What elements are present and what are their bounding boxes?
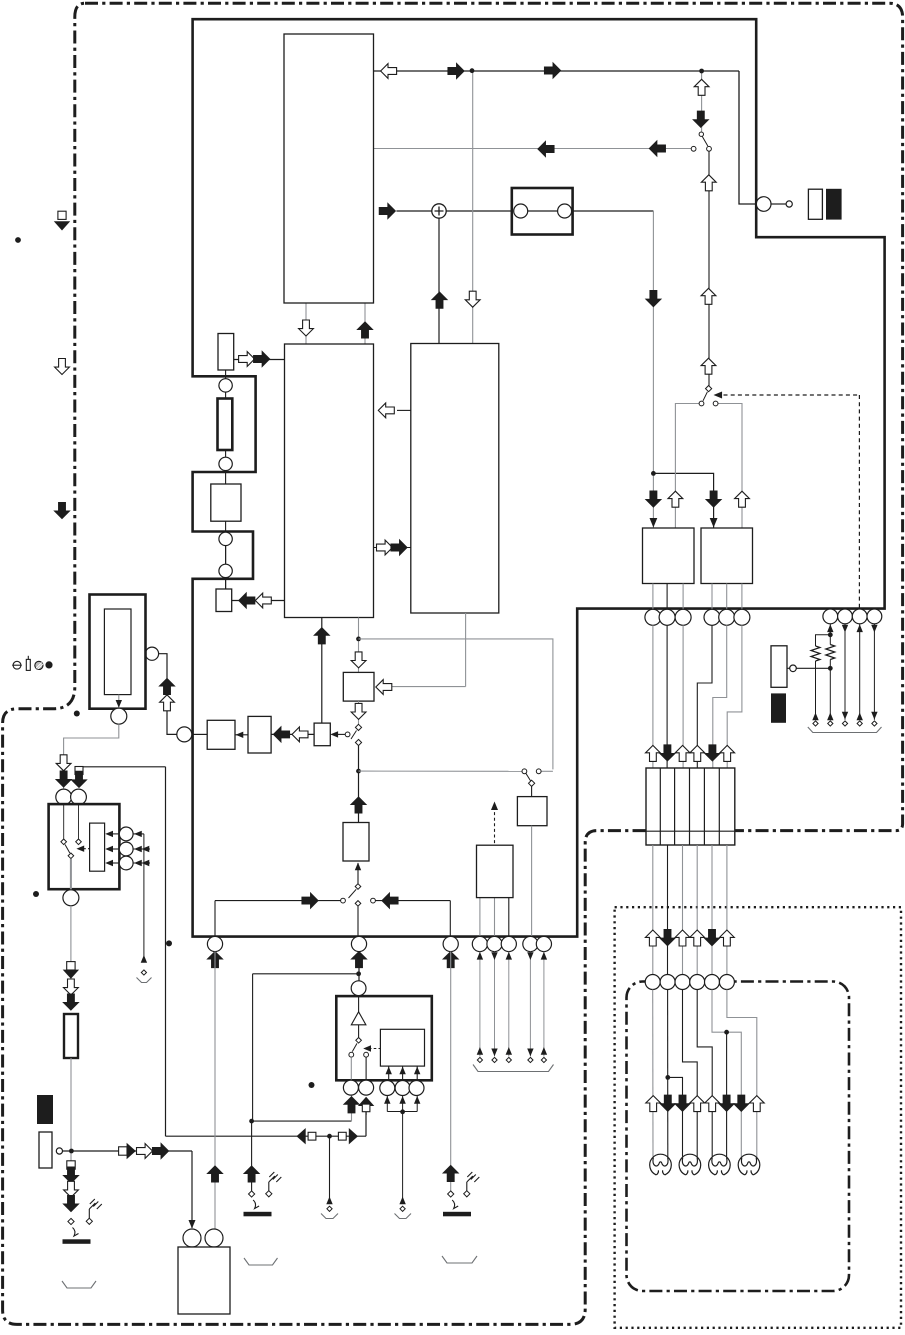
connector pin E3 xyxy=(852,609,867,624)
signal arrow open up xyxy=(701,288,716,304)
wire D2 to D1 xyxy=(235,734,248,736)
wire control block feed xyxy=(402,1067,404,1081)
jack J3 ground contact xyxy=(464,1191,470,1197)
wire sensor c to control block xyxy=(111,862,120,864)
jack J2 tip contact xyxy=(249,1191,255,1197)
arrowhead into control block xyxy=(386,1067,392,1075)
lamp L2 xyxy=(679,1154,701,1175)
marker square xyxy=(75,767,83,775)
marker square xyxy=(67,1161,75,1169)
signal arrow black up into junction net-C xyxy=(351,797,366,813)
block U5 (driver) xyxy=(701,528,753,584)
junction D5 branch xyxy=(724,1030,729,1035)
wire chain lower xyxy=(225,545,227,589)
contact stub xyxy=(327,1206,332,1211)
wire U3 to U2 xyxy=(397,409,411,411)
plug black L1 xyxy=(37,1095,53,1124)
block D2 xyxy=(248,716,271,753)
wire S2 throw-b to box U5 xyxy=(716,404,742,529)
arrowhead into M2 xyxy=(355,863,361,871)
connector pin P9 xyxy=(71,789,87,805)
index dot b xyxy=(74,711,80,717)
connector bank divider xyxy=(689,768,691,845)
connector pin D1 xyxy=(645,975,660,990)
wire G1 down xyxy=(531,826,533,937)
signal arrow black up into P15 xyxy=(352,952,367,968)
switch S5 lever xyxy=(65,845,70,854)
arrowhead E2 top xyxy=(842,625,848,633)
dashed control to S7 xyxy=(369,1048,381,1050)
block F1 xyxy=(477,845,514,897)
filament arrow black down 2 xyxy=(660,1095,675,1111)
jack J2 sleeve bar xyxy=(244,1212,272,1217)
block motor M3 xyxy=(178,1247,230,1314)
junction net-D xyxy=(327,1134,332,1139)
bracket J1 xyxy=(62,1281,96,1288)
connector pin E2 xyxy=(838,609,853,624)
wire E1 down upper xyxy=(829,624,831,645)
wire net-A2 horizontal xyxy=(374,148,692,150)
amplifier triangle xyxy=(351,1012,366,1025)
connector pin P24 xyxy=(395,1081,410,1096)
connector pin P5 xyxy=(177,727,192,742)
contact E2 xyxy=(842,721,847,726)
junction E1 a xyxy=(828,632,833,637)
connector pin P12 xyxy=(443,936,458,951)
arrowhead control S5 xyxy=(76,846,84,852)
wire net-J down to jack J2 xyxy=(251,1121,253,1191)
bracket stub xyxy=(321,1214,338,1219)
wire P7 to P8 xyxy=(64,724,119,789)
legend icon dot xyxy=(45,661,52,668)
switch S1 pivot xyxy=(699,132,703,136)
connector pin P16 xyxy=(472,936,487,951)
wire E1 to D2 xyxy=(271,733,314,735)
arrowhead control S7 xyxy=(363,1045,371,1051)
marker triangle right pin xyxy=(127,1143,136,1159)
connector pin P18 xyxy=(501,936,516,951)
connector pin E1 xyxy=(823,609,838,624)
dashed control line vertical xyxy=(858,395,860,608)
switch S6 contact center xyxy=(355,901,361,907)
arrowhead into P11 xyxy=(188,1220,195,1229)
legend icon minus-circle xyxy=(12,661,22,669)
connector pin P6 xyxy=(145,647,158,660)
switch S5 pole xyxy=(68,853,74,859)
switch S7 contact a xyxy=(349,1052,354,1057)
signal arrow black left xyxy=(382,893,398,908)
junction right branch xyxy=(651,471,656,476)
arrowhead lead bottom up xyxy=(506,1047,512,1055)
arrowhead lead bottom down xyxy=(491,1049,497,1057)
wire Q4 to bank (jog) xyxy=(697,625,712,768)
wire headphone lead xyxy=(543,952,545,1057)
marker triangle up into P13 xyxy=(358,1097,374,1106)
wire sensor bus down xyxy=(143,834,145,962)
signal arrow black right xyxy=(391,540,407,555)
switch S1 lever xyxy=(702,137,708,147)
switch S6 contact a xyxy=(341,898,346,903)
signal arrow open up xyxy=(701,358,716,374)
signal arrow open up xyxy=(701,175,716,191)
arrowhead lead top down xyxy=(527,952,533,960)
marker triangle down (top left) xyxy=(54,221,70,230)
switch S1 contact a xyxy=(691,146,696,151)
marker triangle right xyxy=(349,1128,358,1144)
connector pin D6 xyxy=(719,975,734,990)
switch S5 throw a xyxy=(61,839,67,845)
chassis ground J1 xyxy=(89,1199,102,1209)
wire to box U4 xyxy=(652,473,654,528)
wire J1 to ground xyxy=(88,1209,90,1218)
connector CN1 mate xyxy=(786,201,792,207)
bracket leads xyxy=(473,1065,554,1072)
wire S3 down to M2 xyxy=(358,746,360,823)
contact lead end xyxy=(477,1057,482,1062)
arrowhead into D1 xyxy=(236,732,244,738)
wire U1 to summer xyxy=(396,210,432,212)
contact E3 xyxy=(857,721,862,726)
wire bank out 4 xyxy=(696,845,698,975)
filament arrow open up 5 xyxy=(705,1096,720,1112)
plug housing black right xyxy=(771,693,786,722)
wire net-H down to connector xyxy=(214,901,216,937)
plug housing white xyxy=(808,189,822,219)
signal arrow open down xyxy=(56,755,71,771)
jack J1 sleeve bar xyxy=(63,1239,91,1244)
sensor pin a xyxy=(119,827,133,841)
signal arrow black up into U1 xyxy=(358,322,373,338)
wire headphone lead xyxy=(494,952,496,1057)
signal arrow black up on P11b line xyxy=(208,1166,223,1182)
arrowhead E1 top xyxy=(827,624,833,632)
wire switch S1 to switch S2 xyxy=(708,151,710,386)
marker square xyxy=(67,962,75,970)
jack J3 spring xyxy=(452,1200,458,1209)
wire U4 pin a xyxy=(652,584,654,610)
dashed control to S5 xyxy=(83,848,89,850)
connector pin Q2 xyxy=(659,609,675,625)
signal arrow black down xyxy=(64,1167,79,1183)
legend icon slash-circle xyxy=(35,661,43,669)
wire Q3 to bank xyxy=(682,625,684,768)
signal arrow black down xyxy=(64,1196,79,1212)
wire speaker pin down xyxy=(402,1096,404,1112)
dashed control line from display xyxy=(724,394,860,396)
marker triangle left xyxy=(297,1128,306,1144)
connector pin P20 xyxy=(536,936,551,951)
wire speaker bus xyxy=(387,1111,417,1113)
signal arrow open up xyxy=(668,491,683,507)
block M1 xyxy=(343,672,374,701)
bracket small xyxy=(137,978,152,983)
signal arrow open up to bank xyxy=(675,745,690,761)
connector small circle right xyxy=(790,665,797,672)
junction net-C xyxy=(356,769,361,774)
connector pin P22 xyxy=(343,1080,358,1095)
wire sensor a to control block xyxy=(111,833,120,835)
switch S2 contact a xyxy=(699,401,704,406)
connector pin P25 xyxy=(409,1081,424,1096)
resistor R5 xyxy=(826,645,835,660)
switch S3 throw xyxy=(355,739,361,745)
arrowhead lead bottom up xyxy=(477,1047,483,1055)
connector pin P19 xyxy=(523,936,538,951)
signal arrow black down xyxy=(72,771,87,787)
wire U5 pin a xyxy=(711,584,713,610)
wire to switch S1 xyxy=(701,71,703,132)
switch S2 lever xyxy=(703,392,707,401)
resistor R3 (bold) xyxy=(64,1014,78,1058)
signal arrow black right xyxy=(545,63,561,78)
wire speaker pin down xyxy=(386,1096,388,1112)
junction net-A1 a xyxy=(470,68,475,73)
wire down to connector P12 xyxy=(449,901,451,937)
switch S4 pole xyxy=(529,780,535,786)
bracket speaker xyxy=(395,1214,412,1219)
wire J2 to ground xyxy=(268,1182,270,1191)
wire U2 to E1 xyxy=(321,618,323,724)
wire sensor b to control block xyxy=(111,848,120,850)
wire bank out 3 xyxy=(682,845,684,975)
resistor R4 xyxy=(811,646,820,661)
switch S4 contact b xyxy=(536,769,541,774)
signal arrow open up to bank xyxy=(646,745,661,761)
wire U3 to M1 vertical xyxy=(465,613,467,687)
control block inside amp box xyxy=(380,1029,424,1066)
signal arrow open left (U1 input) xyxy=(381,64,397,79)
wire Q5 to bank (jog) xyxy=(713,625,727,768)
arrowhead lead top up xyxy=(477,952,483,960)
wire bus to sensor a xyxy=(133,833,144,835)
signal arrow black right xyxy=(448,64,464,79)
wire bank out 2 xyxy=(667,845,669,975)
wire bank out 5 xyxy=(711,845,713,975)
wire P9 into S5 xyxy=(78,805,80,839)
signal arrow black up into U3 xyxy=(432,292,447,308)
wire relay internal xyxy=(528,210,558,212)
wire Q2 to bank xyxy=(666,625,668,768)
switch S6 lever xyxy=(349,889,357,898)
wire summer to U3 xyxy=(438,218,440,344)
signal arrow open down into M1 xyxy=(351,652,366,668)
wire U5 pin c xyxy=(741,584,743,610)
signal arrow black down xyxy=(646,291,661,307)
wire P21 to amp xyxy=(358,996,360,1012)
switch S2 contact b xyxy=(713,401,718,406)
wire net-J horizontal xyxy=(252,1120,352,1122)
connector bank internal line xyxy=(646,830,735,832)
wire U5 pin b xyxy=(726,584,728,610)
signal arrow black left into D2 xyxy=(274,727,290,742)
wire down right xyxy=(652,211,654,473)
switch box S5 (bold) xyxy=(49,804,120,889)
arrowhead up to pin xyxy=(414,1096,420,1104)
wire D3 to lamp L2 (jog) xyxy=(683,990,698,1158)
wire long net-D horizontal top xyxy=(83,766,166,768)
signal arrow open up to bank xyxy=(690,745,705,761)
junction net-B xyxy=(356,637,361,642)
wire E4 down xyxy=(873,624,875,720)
filament arrow open up 4 xyxy=(690,1096,705,1112)
summing node xyxy=(432,204,446,218)
wire net-J up to P22 xyxy=(351,1095,353,1121)
signal arrow black right xyxy=(379,204,395,219)
wire U4 pin c xyxy=(682,584,684,610)
arrowhead E4 top xyxy=(871,625,877,633)
signal arrow open up display 1 xyxy=(645,930,660,946)
wire plug stub xyxy=(787,667,790,669)
signal arrow open up to bank xyxy=(720,745,735,761)
arrowhead stub xyxy=(326,1197,332,1205)
amp box (bold) xyxy=(336,996,432,1080)
signal arrow black left xyxy=(538,142,554,157)
wire D4 to lamp L3 (jog) xyxy=(697,990,712,1157)
signal arrow open up xyxy=(160,695,175,711)
signal arrow open right U2 to U3 xyxy=(377,540,393,555)
wire speaker pin down xyxy=(416,1096,418,1112)
junction speaker bus xyxy=(400,1109,405,1114)
connector pin D3 xyxy=(675,975,690,990)
signal arrow black up on J2 line xyxy=(244,1166,259,1182)
jack J1 ground contact xyxy=(86,1218,92,1224)
legend icon battery xyxy=(26,656,30,671)
connector bank divider xyxy=(703,768,705,845)
filament arrow open up 8 xyxy=(749,1096,764,1112)
signal arrow open right xyxy=(239,352,255,367)
filament arrow open up 1 xyxy=(646,1096,661,1112)
bracket J3 xyxy=(442,1256,477,1263)
connector pin P3 xyxy=(219,532,232,545)
jack J2 ground contact xyxy=(266,1191,272,1197)
arrowhead sensor c xyxy=(105,860,113,866)
arrowhead E3 top xyxy=(857,624,863,632)
signal arrow black right xyxy=(302,893,318,908)
index dot c xyxy=(33,891,39,897)
arrowhead up to pin xyxy=(384,1096,390,1104)
signal arrow open down below M1 xyxy=(351,703,366,719)
wire F1 out a xyxy=(479,898,481,937)
connector bank divider xyxy=(659,768,661,845)
marker square under triangle xyxy=(362,1104,370,1112)
signal arrow open left xyxy=(292,727,308,742)
connector pin D5 xyxy=(705,975,720,990)
wire M2 to switch S6 xyxy=(357,863,359,884)
contact lead end xyxy=(528,1057,533,1062)
connector pin P21 xyxy=(351,981,366,996)
wire S7a down xyxy=(350,1057,352,1080)
connector bank divider xyxy=(674,768,676,845)
resistor R1 xyxy=(218,334,234,371)
switch S6 contact b xyxy=(371,898,376,903)
contact lead end xyxy=(492,1057,497,1062)
dashed wire into F1 xyxy=(494,807,496,846)
wire E3 down xyxy=(859,624,861,720)
signal arrow black down to U5 xyxy=(706,491,721,507)
signal arrow open down xyxy=(64,1181,79,1197)
switch S4 contact a xyxy=(522,769,527,774)
component X1 box xyxy=(216,589,232,612)
junction net-E xyxy=(69,1149,74,1154)
block U4 (driver) xyxy=(643,528,695,584)
arrowhead into control block xyxy=(414,1067,420,1075)
wire bank out 6 xyxy=(726,845,728,975)
wire P8 into S5 xyxy=(63,805,65,839)
connector pin P17 xyxy=(487,936,502,951)
wire Q1 to bank xyxy=(652,625,654,768)
wire U2 to X1 xyxy=(232,600,285,602)
wire long net-D vertical xyxy=(165,767,167,1136)
relay box K1 xyxy=(512,188,573,235)
junction D2 branch xyxy=(665,1075,670,1080)
switch S6 pole xyxy=(355,884,361,890)
connector pin Q3 xyxy=(675,609,691,625)
junction E1 b xyxy=(828,666,833,671)
wire connector stub xyxy=(771,203,786,205)
arrowhead sensor pin b xyxy=(134,846,142,852)
jack J3 tip contact xyxy=(448,1191,454,1197)
wire S7b down xyxy=(365,1057,367,1080)
wire U2 to U3 xyxy=(374,547,411,549)
wire P12 to jack J3 xyxy=(450,952,452,1191)
signal arrow black down to bank xyxy=(660,745,675,761)
switch S1 contact b xyxy=(707,146,712,151)
signal arrow black down display 2 xyxy=(660,930,675,946)
switch S3 lever xyxy=(351,731,357,740)
block U2 (signal processor) xyxy=(285,344,374,618)
sensor pin c xyxy=(119,856,133,870)
wire net-I horizontal xyxy=(253,973,359,975)
wire P15 to P21 xyxy=(358,952,360,981)
marker square pin xyxy=(119,1147,127,1155)
arrowhead up to pin xyxy=(399,1096,405,1104)
arrowhead sensor pin c xyxy=(134,860,142,866)
sensor pin b xyxy=(119,842,133,856)
wire headphone lead xyxy=(529,952,531,1057)
arrowhead sensor b xyxy=(105,846,113,852)
marker triangle down xyxy=(63,970,79,979)
jack J3 sleeve bar xyxy=(443,1212,471,1217)
display unit outline (dotted) xyxy=(615,907,901,1328)
block D1 xyxy=(207,720,235,749)
contact speaker end xyxy=(400,1206,405,1211)
wire control block feed xyxy=(416,1067,418,1081)
signal arrow black left xyxy=(649,141,665,156)
wire R1 to U2 xyxy=(234,359,285,361)
arrowhead sensor a xyxy=(105,831,113,837)
component C1 box xyxy=(211,484,241,521)
wire P6 into mechanism xyxy=(131,653,145,655)
switch S2 pivot xyxy=(706,386,712,392)
relay contact circle b xyxy=(558,204,572,218)
signal arrow black down xyxy=(64,994,79,1010)
signal arrow open left xyxy=(255,593,271,608)
switch S7 contact b xyxy=(364,1052,369,1057)
connector pin D4 xyxy=(690,975,705,990)
arrowhead E1 bottom xyxy=(827,713,833,721)
bracket right group xyxy=(808,727,882,733)
wire Q6 to bank (jog) xyxy=(727,625,742,768)
connector bank divider xyxy=(718,768,720,845)
signal arrow black down xyxy=(56,771,71,787)
arrowhead sensor pin b2 xyxy=(142,846,150,852)
connector pin P1 xyxy=(219,379,232,392)
connector CN1 pin xyxy=(756,197,771,212)
board outline (solid) xyxy=(193,19,885,936)
signal arrow black up xyxy=(160,679,175,695)
wire E1 branch xyxy=(816,635,831,646)
wire U1 to U2 left xyxy=(305,303,307,344)
